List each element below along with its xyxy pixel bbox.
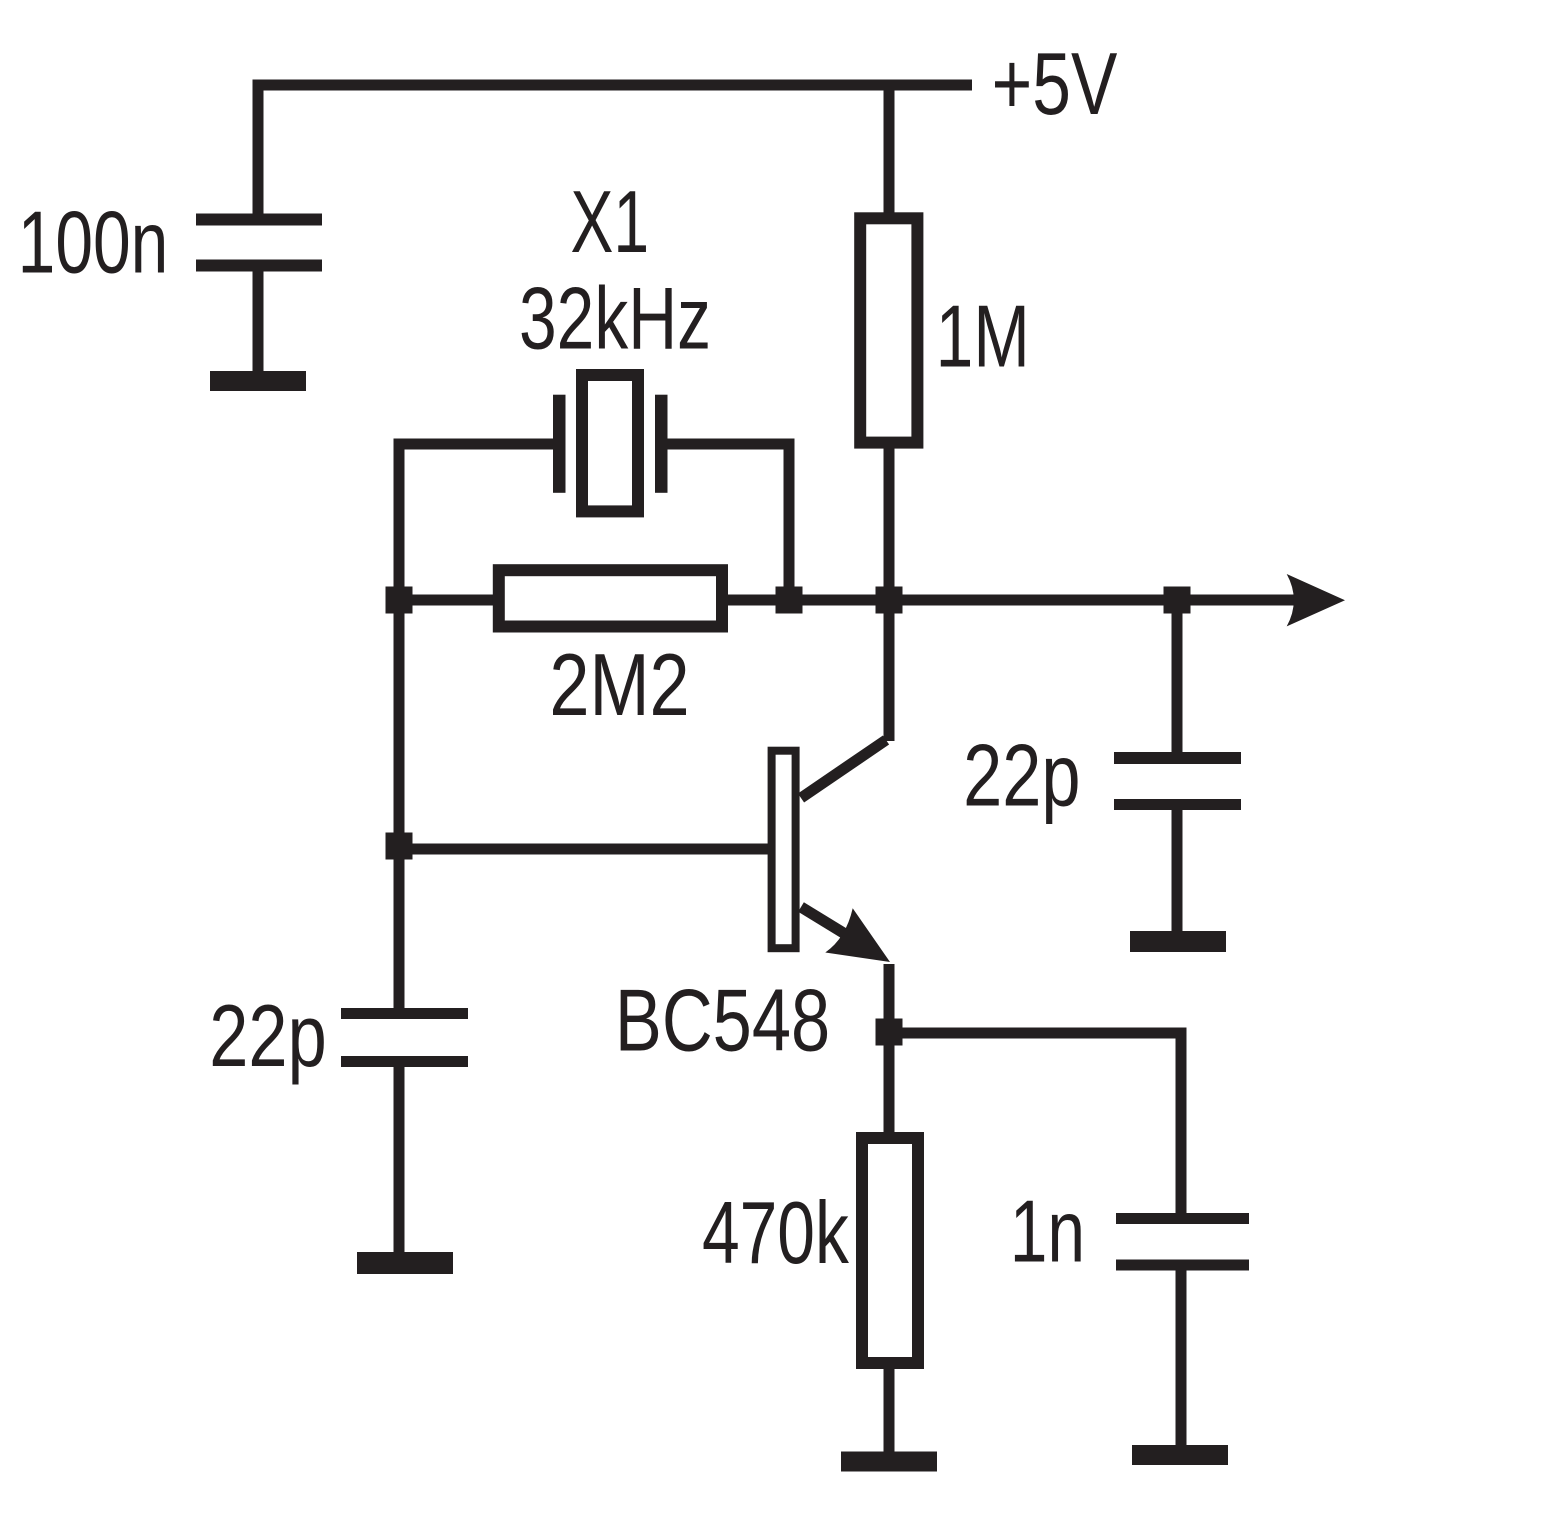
wire 1n bottom plate to ground	[1176, 1265, 1187, 1455]
wire left column vertical (crystal bend to left 22p top plate)	[394, 439, 405, 1014]
wire 470k bottom to ground	[884, 1360, 895, 1462]
ground below 470k	[841, 1452, 937, 1472]
svg-text:1n: 1n	[1010, 1182, 1085, 1281]
resistor 1M (box)	[860, 218, 917, 442]
crystal X1 right electrode	[655, 395, 668, 493]
wire crystal left lead	[399, 439, 553, 450]
capacitor 22p right plates	[1114, 752, 1241, 810]
output arrowhead	[1287, 574, 1345, 626]
crystal X1 body	[582, 375, 638, 511]
svg-text:1M: 1M	[936, 287, 1030, 386]
svg-text:+5V: +5V	[992, 34, 1118, 133]
svg-text:470k: 470k	[702, 1183, 850, 1282]
ground below right 22p	[1130, 931, 1226, 952]
svg-text:22p: 22p	[963, 726, 1080, 824]
wire collector diagonal	[801, 740, 886, 798]
ground below left 22p	[357, 1252, 453, 1274]
wire top +5V rail	[253, 80, 973, 91]
transistor Q1 base bar	[772, 751, 796, 949]
node A (2M2 left / crystal junction)	[386, 587, 413, 614]
resistor 470k (box)	[862, 1138, 918, 1363]
svg-text:22p: 22p	[209, 986, 326, 1084]
wire emitter node to 1n	[889, 1028, 1181, 1039]
wire crystal right lead	[667, 439, 789, 450]
wire down to 1n top plate	[1176, 1028, 1187, 1219]
node C (1M / collector junction)	[876, 587, 903, 614]
wire from rail down to 100n	[253, 80, 264, 220]
svg-text:X1: X1	[571, 173, 650, 271]
wire main output line	[399, 595, 1297, 606]
node F (emitter junction)	[876, 1019, 903, 1046]
svg-text:100n: 100n	[18, 193, 169, 292]
wire output node down to right 22p top plate	[1172, 600, 1183, 757]
ground below 1n	[1132, 1445, 1228, 1465]
capacitor 100n plates	[196, 214, 322, 272]
node D (output / right 22p junction)	[1164, 587, 1191, 614]
node E (base junction)	[386, 833, 413, 860]
ground below 100n	[210, 371, 306, 391]
svg-text:BC548: BC548	[615, 971, 830, 1069]
wire 100n bottom plate to ground	[253, 266, 264, 385]
svg-text:2M2: 2M2	[549, 636, 689, 734]
wire 1M bottom to output node	[884, 430, 895, 600]
node B (crystal right junction)	[776, 587, 803, 614]
wire crystal right lead down to main line	[784, 439, 795, 601]
wire left 22p bottom plate to ground	[394, 1062, 405, 1265]
capacitor 1n plates	[1116, 1213, 1249, 1271]
wire right 22p bottom plate to ground	[1172, 805, 1183, 942]
svg-text:32kHz: 32kHz	[519, 269, 711, 368]
transistor Q1 emitter arrowhead	[825, 908, 890, 962]
wire collector vertical	[884, 600, 895, 741]
wire from rail down to 1M resistor	[884, 85, 895, 230]
capacitor 22p left plates	[341, 1008, 468, 1067]
resistor 2M2 (box)	[499, 570, 722, 626]
wire emitter diagonal	[801, 907, 868, 948]
wire emitter vertical to node	[884, 964, 895, 1038]
crystal X1 left electrode	[553, 395, 566, 493]
wire emitter node down to 470k	[884, 1033, 895, 1150]
wire base	[399, 844, 770, 855]
